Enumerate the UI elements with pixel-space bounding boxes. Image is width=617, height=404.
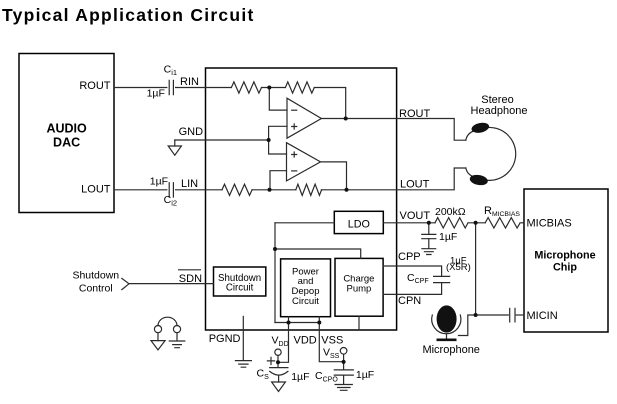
svg-text:RIN: RIN <box>180 76 199 88</box>
svg-text:VDD: VDD <box>272 335 289 348</box>
svg-text:PGND: PGND <box>209 333 241 345</box>
svg-text:Control: Control <box>79 282 113 294</box>
svg-text:DAC: DAC <box>53 135 80 149</box>
svg-text:VSS: VSS <box>321 334 343 346</box>
svg-text:Typical Application Circuit: Typical Application Circuit <box>2 5 255 25</box>
svg-text:AUDIO: AUDIO <box>46 122 87 136</box>
svg-text:Pump: Pump <box>346 284 371 295</box>
svg-text:1µF: 1µF <box>356 369 374 381</box>
svg-text:Circuit: Circuit <box>226 282 254 293</box>
svg-text:Stereo: Stereo <box>481 94 513 106</box>
svg-text:ROUT: ROUT <box>399 108 430 120</box>
svg-text:1µF: 1µF <box>291 371 309 383</box>
svg-text:Shutdown: Shutdown <box>72 269 119 281</box>
svg-text:SDN: SDN <box>179 273 202 285</box>
svg-text:Chip: Chip <box>553 262 577 274</box>
svg-text:1µF: 1µF <box>150 175 168 187</box>
svg-text:Ci2: Ci2 <box>164 194 177 207</box>
svg-text:Microphone: Microphone <box>422 344 479 356</box>
svg-text:LOUT: LOUT <box>81 183 111 195</box>
svg-text:200kΩ: 200kΩ <box>435 206 466 218</box>
svg-text:CPP: CPP <box>398 251 421 263</box>
svg-text:LOUT: LOUT <box>400 179 430 191</box>
svg-text:VOUT: VOUT <box>400 210 431 222</box>
svg-text:VDD: VDD <box>294 334 317 346</box>
svg-text:Ci1: Ci1 <box>164 64 177 77</box>
svg-text:1µF: 1µF <box>147 88 165 100</box>
svg-text:CS: CS <box>257 368 270 381</box>
svg-text:CCPO: CCPO <box>315 370 338 383</box>
svg-text:VSS: VSS <box>323 347 340 360</box>
svg-text:CCPF: CCPF <box>407 272 429 285</box>
svg-text:GND: GND <box>179 126 204 138</box>
svg-text:CPN: CPN <box>398 295 421 307</box>
svg-text:MICIN: MICIN <box>527 310 558 322</box>
svg-text:LIN: LIN <box>181 178 198 190</box>
svg-text:MICBIAS: MICBIAS <box>527 217 572 229</box>
svg-text:Headphone: Headphone <box>471 105 528 117</box>
svg-text:(X5R): (X5R) <box>446 262 471 273</box>
svg-text:Microphone: Microphone <box>534 249 595 261</box>
svg-text:Circuit: Circuit <box>292 296 319 307</box>
svg-text:1µF: 1µF <box>439 231 457 243</box>
svg-text:RMICBIAS: RMICBIAS <box>484 205 520 218</box>
svg-text:LDO: LDO <box>348 219 370 231</box>
svg-text:ROUT: ROUT <box>79 80 110 92</box>
